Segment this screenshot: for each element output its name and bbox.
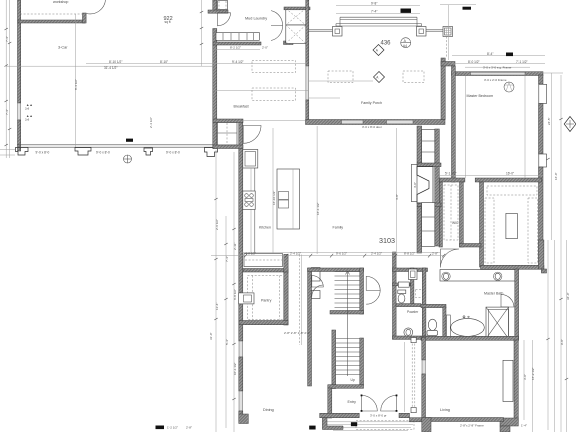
svg-text:7'-4": 7'-4" bbox=[5, 109, 9, 115]
vanity sink west bbox=[442, 272, 450, 280]
svg-text:3'-0": 3'-0" bbox=[523, 374, 527, 380]
dim porch-master v bbox=[447, 5, 449, 60]
master north wall bbox=[452, 72, 544, 76]
entry porch left L wall bbox=[322, 418, 343, 430]
svg-text:Master Bedroom: Master Bedroom bbox=[467, 94, 494, 98]
svg-text:WIC: WIC bbox=[452, 221, 459, 225]
kitchen island bbox=[277, 169, 300, 229]
porch post west bbox=[333, 27, 343, 37]
porch beam upper pair bbox=[340, 17, 417, 19]
svg-text:5'-1 1/2": 5'-1 1/2" bbox=[445, 172, 457, 176]
garage to mud door arc bbox=[218, 13, 231, 26]
svg-text:8'-10": 8'-10" bbox=[160, 60, 168, 64]
family east wall upper bbox=[417, 126, 422, 163]
garage door pier 3 bbox=[144, 148, 153, 155]
svg-text:24'-5": 24'-5" bbox=[547, 117, 551, 125]
wc north wall bbox=[421, 304, 446, 307]
house west wall upper bbox=[239, 122, 243, 341]
svg-text:2'-8": 2'-8" bbox=[186, 426, 192, 430]
svg-text:1'-2 1/2": 1'-2 1/2" bbox=[167, 426, 178, 430]
top-right corner black mark bbox=[463, 7, 472, 10]
svg-text:11'-4": 11'-4" bbox=[215, 303, 219, 310]
powder divider wall bbox=[411, 268, 414, 305]
stair west wall lower bbox=[332, 330, 336, 389]
living west cased opening bbox=[422, 360, 425, 374]
his wic door arc bbox=[441, 249, 460, 268]
porch west window bbox=[306, 66, 309, 100]
stair hall boxes bbox=[312, 268, 321, 282]
dim master top h2 bbox=[452, 63, 545, 65]
pantry east wall upper bbox=[284, 254, 288, 272]
fireplace bbox=[417, 163, 441, 167]
svg-text:9'-6 1/2": 9'-6 1/2" bbox=[336, 251, 347, 255]
dim left bottom h bbox=[0, 150, 15, 156]
stair treads upper flight bbox=[335, 272, 360, 308]
dim far-right v1 bbox=[551, 73, 553, 240]
dim far-right v3 bbox=[560, 75, 562, 432]
master closet hanging east bbox=[528, 198, 538, 263]
master east wall mid bbox=[539, 104, 544, 155]
master east wall upper bbox=[539, 75, 544, 84]
stair east wall upper bbox=[360, 268, 364, 314]
house west wall seg2 bbox=[239, 357, 243, 391]
master closet hanging west bbox=[485, 198, 494, 263]
svg-text:9'-0 x 8'-0: 9'-0 x 8'-0 bbox=[96, 151, 110, 155]
svg-text:7'-4": 7'-4" bbox=[5, 36, 9, 42]
svg-text:Up: Up bbox=[351, 378, 355, 382]
entry porch right jog wall bbox=[410, 418, 422, 422]
gallery colonnade bbox=[411, 340, 413, 410]
his wic west wall bbox=[439, 182, 442, 247]
svg-text:31'-0": 31'-0" bbox=[209, 332, 213, 340]
svg-text:Powder: Powder bbox=[407, 310, 419, 314]
garage east wall bbox=[213, 0, 217, 13]
laundry north wall bbox=[284, 7, 310, 10]
garage slab center symbol bbox=[124, 155, 132, 163]
bottom black rect west bbox=[309, 426, 315, 430]
his wic hanging dashes bbox=[444, 185, 458, 240]
svg-text:3'-0 x 8'-0 pr: 3'-0 x 8'-0 pr bbox=[370, 414, 387, 418]
workshop dashed header bbox=[20, 13, 82, 15]
powder mid wall bbox=[393, 283, 411, 286]
svg-text:3'-0 x 3'-0 e.g. Frame: 3'-0 x 3'-0 e.g. Frame bbox=[483, 65, 512, 69]
pantry north wall bbox=[243, 269, 288, 273]
svg-text:16'-10 1/2": 16'-10 1/2" bbox=[272, 191, 276, 205]
dim garage horiz bbox=[6, 65, 213, 67]
svg-text:workshop: workshop bbox=[53, 0, 68, 4]
garage front wall line bbox=[17, 144, 216, 146]
living niche bbox=[503, 360, 513, 401]
tub platform edge bbox=[447, 315, 451, 338]
powder sink bbox=[404, 328, 413, 337]
master east window bay 1 bbox=[539, 84, 547, 103]
his wic south wall bbox=[460, 244, 482, 248]
fireplace cabinets lower bbox=[422, 203, 435, 247]
workshop south wall bbox=[18, 20, 85, 23]
dim porch mid h bbox=[336, 13, 420, 15]
svg-text:7'-4": 7'-4" bbox=[371, 10, 377, 14]
master top black mark bbox=[506, 53, 513, 57]
powder south inner wall bbox=[396, 304, 421, 307]
pantry west niche bbox=[239, 293, 254, 304]
svg-text:31'-4 1/2": 31'-4 1/2" bbox=[104, 66, 117, 70]
porch beam end verticals bbox=[336, 17, 422, 26]
master east window bay 2 bbox=[539, 154, 547, 167]
living east wall bbox=[514, 340, 518, 422]
dim right top h bbox=[543, 72, 563, 74]
svg-text:3-Car: 3-Car bbox=[58, 46, 68, 50]
pantry east wall bbox=[284, 272, 288, 325]
entry front wall west seg bbox=[320, 413, 360, 417]
svg-text:Living: Living bbox=[440, 408, 450, 412]
svg-text:A4: A4 bbox=[403, 44, 407, 48]
dim master room v1 bbox=[465, 76, 467, 178]
dim garage center v bbox=[74, 14, 76, 147]
burners bbox=[245, 194, 249, 198]
living SE lower bbox=[500, 426, 510, 432]
master south wall east seg bbox=[475, 178, 541, 182]
dim row mid ticks bbox=[244, 254, 445, 258]
bath vanity counter bbox=[440, 270, 515, 282]
dryer box bbox=[286, 25, 306, 44]
svg-text:4'-8 1/2": 4'-8 1/2" bbox=[245, 251, 256, 255]
svg-text:Kitchen: Kitchen bbox=[259, 226, 271, 230]
porch east dashed edge bbox=[446, 37, 448, 59]
stair treads lower flight bbox=[336, 339, 360, 375]
dim master south h bbox=[439, 174, 543, 176]
bath2 sink counter bbox=[398, 282, 409, 287]
kitchen south counter bbox=[244, 254, 283, 267]
svg-text:34'-0": 34'-0" bbox=[566, 292, 570, 300]
dim left ticks bbox=[5, 28, 12, 146]
svg-text:2'-11": 2'-11" bbox=[233, 243, 237, 250]
vanity sink east bbox=[494, 272, 502, 280]
dim far-left v2 bbox=[9, 0, 11, 158]
entry sill mark bbox=[351, 422, 357, 426]
stair east wall lower bbox=[360, 338, 364, 386]
porch callout circle bbox=[401, 38, 411, 48]
dim far-right v4 bbox=[566, 240, 568, 432]
svg-text:2'-0": 2'-0" bbox=[262, 45, 268, 49]
entry porch slab bbox=[324, 422, 415, 431]
svg-text:Breakfast: Breakfast bbox=[234, 105, 249, 109]
laundry bifold arc bottom bbox=[271, 26, 283, 41]
tub bbox=[451, 319, 485, 337]
svg-text:436: 436 bbox=[381, 40, 392, 46]
mud closet box bbox=[218, 1, 228, 10]
porch tie beam west bbox=[309, 30, 333, 32]
svg-text:3'-0 x 2'-0 Frame: 3'-0 x 2'-0 Frame bbox=[484, 78, 507, 82]
kitchen counter line bbox=[254, 168, 256, 253]
dim driveway horiz bbox=[86, 63, 306, 65]
stair south wall bbox=[328, 385, 364, 389]
svg-text:8'-10 1/2": 8'-10 1/2" bbox=[109, 60, 122, 64]
svg-text:8'-8 1/2": 8'-8 1/2" bbox=[404, 251, 415, 255]
porch interior dim h bbox=[309, 80, 373, 82]
stair closet west wall bbox=[308, 268, 312, 386]
linen box bbox=[409, 269, 418, 280]
dim far-left v1 bbox=[5, 0, 7, 158]
svg-text:2x6: 2x6 bbox=[25, 107, 30, 111]
workshop door arc bbox=[87, 0, 106, 14]
dim mud col v bbox=[201, 0, 203, 66]
powder south wall bbox=[393, 336, 428, 339]
entry front wall east seg bbox=[399, 413, 410, 417]
svg-text:2'-4 1/2": 2'-4 1/2" bbox=[290, 251, 301, 255]
breakfast closet south wall bbox=[213, 145, 243, 149]
master closet island bbox=[506, 213, 517, 238]
dim mud bench bbox=[215, 48, 260, 50]
svg-text:8'-4 1/2": 8'-4 1/2" bbox=[74, 79, 78, 90]
svg-text:9'-8": 9'-8" bbox=[560, 339, 564, 345]
dim living short v2 bbox=[532, 340, 534, 432]
svg-text:2'-8"x 2'-8" Frame: 2'-8"x 2'-8" Frame bbox=[460, 423, 484, 427]
svg-text:2'-6 1/2": 2'-6 1/2" bbox=[215, 219, 219, 230]
svg-text:Family Porch: Family Porch bbox=[361, 101, 382, 105]
dim master top h1 bbox=[452, 55, 545, 57]
his wic east wall bbox=[460, 182, 464, 247]
fridge box bbox=[243, 150, 258, 169]
svg-text:Mud Laundry: Mud Laundry bbox=[245, 17, 267, 21]
powder block west wall bbox=[393, 252, 397, 339]
porch west wall lower bbox=[306, 100, 309, 122]
porch top black mark bbox=[401, 9, 412, 13]
powder block north wall bbox=[393, 268, 428, 272]
mud lockers bench bbox=[216, 33, 259, 41]
svg-text:▲▲: ▲▲ bbox=[26, 103, 33, 107]
svg-text:8'-0 1/2": 8'-0 1/2" bbox=[468, 60, 480, 64]
svg-text:16'-0": 16'-0" bbox=[506, 172, 514, 176]
svg-text:3'-0 x 8'-0 door: 3'-0 x 8'-0 door bbox=[362, 125, 382, 129]
garage west wall window bbox=[18, 103, 21, 120]
svg-text:2'-4 1/2": 2'-4 1/2" bbox=[371, 251, 382, 255]
range box bbox=[243, 191, 255, 210]
entry west wall bbox=[328, 388, 332, 418]
svg-text:9'-0 x 8'-0: 9'-0 x 8'-0 bbox=[166, 151, 180, 155]
svg-text:2'-8": 2'-8" bbox=[432, 251, 438, 255]
hall east wall (closet divider) bbox=[480, 182, 484, 267]
fireplace back wall bbox=[435, 129, 440, 246]
locker dividers bbox=[223, 33, 254, 40]
diamond symbol right edge bbox=[564, 117, 576, 132]
master closet east wall bbox=[539, 240, 544, 269]
entry double door arcs bbox=[362, 395, 378, 411]
breakfast ceiling dashed box upper bbox=[252, 61, 296, 73]
pantry shelves dashed bbox=[248, 276, 285, 320]
living south wall bbox=[424, 418, 504, 422]
shower bbox=[486, 307, 509, 339]
house west wall lower bbox=[239, 411, 243, 421]
dim top-right corner h bbox=[440, 4, 476, 6]
kitchen door arc bbox=[243, 126, 261, 144]
svg-text:Pantry: Pantry bbox=[261, 299, 272, 303]
dining SW corner bbox=[239, 414, 249, 424]
svg-text:Dining: Dining bbox=[263, 408, 274, 412]
svg-text:9'-0 x 8'-0: 9'-0 x 8'-0 bbox=[36, 151, 50, 155]
porch grill bbox=[443, 27, 453, 37]
fireplace cabinets upper bbox=[422, 130, 435, 164]
family north wall window W bbox=[342, 120, 364, 124]
svg-text:4'-0": 4'-0" bbox=[413, 182, 417, 188]
family north wall (porch south) bbox=[306, 120, 446, 125]
breakfast ceiling dashed box lower bbox=[252, 88, 296, 101]
washer box bbox=[286, 9, 306, 26]
svg-text:7'-1 1/2": 7'-1 1/2" bbox=[516, 60, 528, 64]
garage west wall lower bbox=[18, 120, 21, 151]
living west wall lower bbox=[422, 374, 426, 422]
svg-text:2'-8" 2'-8" 1'-8" 2'-0": 2'-8" 2'-8" 1'-8" 2'-0" bbox=[284, 331, 310, 335]
dim row mid-house bbox=[211, 255, 444, 257]
porch ceiling dashed box east bbox=[403, 71, 424, 83]
breakfast hall north wall bbox=[213, 119, 243, 123]
mud south wall hatched bbox=[213, 42, 261, 45]
porch west wall upper bbox=[306, 0, 309, 66]
dim family east v bbox=[395, 128, 397, 254]
family south double doors bbox=[366, 276, 380, 290]
garage east wall mid bbox=[213, 29, 217, 149]
workshop wall hook bbox=[83, 13, 87, 23]
house west wall window dining1 bbox=[239, 341, 243, 357]
garage door pier 2 bbox=[75, 148, 91, 156]
bottom black mark far west bbox=[156, 426, 165, 430]
porch diamond symbol lower bbox=[374, 72, 385, 83]
entry stoop dashed outline bbox=[356, 421, 414, 430]
master closet south wall bbox=[481, 265, 544, 269]
bath south wall bbox=[421, 336, 519, 340]
stair closet door arcs bbox=[312, 276, 324, 288]
dim porch top h bbox=[336, 5, 420, 7]
svg-text:16'-1 1/2": 16'-1 1/2" bbox=[316, 202, 320, 215]
svg-text:1'-4": 1'-4" bbox=[521, 423, 527, 427]
svg-text:9'-4 1/2": 9'-4 1/2" bbox=[232, 60, 244, 64]
svg-text:3103: 3103 bbox=[379, 236, 395, 245]
family north wall window E bbox=[387, 120, 414, 124]
wc east wall bbox=[443, 307, 446, 338]
powder toilet bbox=[398, 290, 406, 294]
svg-text:16'-0": 16'-0" bbox=[554, 172, 558, 180]
garage floor drain mark bbox=[126, 139, 133, 142]
porch ceiling dashed box west bbox=[328, 71, 353, 83]
living SE corner bbox=[500, 418, 518, 426]
island sink bbox=[279, 192, 289, 200]
svg-text:sq ft: sq ft bbox=[165, 20, 171, 24]
dim col v1 bbox=[215, 150, 217, 432]
master ceiling fan bbox=[504, 82, 514, 92]
dim col ticks bbox=[214, 198, 235, 400]
dim master room v2 bbox=[524, 76, 526, 178]
svg-text:8'-4": 8'-4" bbox=[487, 52, 493, 56]
garage SW corner pier bbox=[16, 148, 29, 156]
wc toilet bbox=[428, 319, 436, 330]
dim far-right ticks bbox=[546, 118, 568, 380]
dim breakfast h bbox=[215, 90, 308, 92]
svg-text:Master Bath: Master Bath bbox=[484, 291, 503, 295]
svg-text:Entry: Entry bbox=[348, 400, 357, 404]
porch tie beam east bbox=[426, 30, 443, 32]
svg-text:6'-8 1/2": 6'-8 1/2" bbox=[233, 289, 237, 300]
svg-text:2'-4 1/2": 2'-4 1/2" bbox=[149, 117, 153, 128]
garage west wall bbox=[18, 0, 21, 103]
stair direction arrow bbox=[347, 272, 349, 376]
svg-text:2x6: 2x6 bbox=[25, 118, 30, 122]
master east wall lower bbox=[539, 167, 544, 269]
dim col v3 bbox=[233, 152, 235, 432]
garage SE pier bbox=[205, 148, 218, 157]
svg-text:7'-4": 7'-4" bbox=[225, 256, 229, 262]
porch post east bbox=[417, 27, 427, 37]
dim kitchen v bbox=[272, 128, 274, 253]
laundry bifold arc top bbox=[271, 11, 283, 26]
house west wall window dining2 bbox=[239, 391, 243, 411]
wc door arc bbox=[501, 295, 514, 308]
porch east wall bbox=[441, 58, 445, 120]
svg-text:5'-4": 5'-4" bbox=[225, 339, 229, 345]
breakfast closet box bbox=[218, 123, 238, 146]
svg-text:9'-8": 9'-8" bbox=[371, 2, 377, 6]
porch diamond symbol upper bbox=[373, 45, 384, 56]
svg-text:16'-2 1/2": 16'-2 1/2" bbox=[531, 367, 535, 380]
family east wall lower bbox=[417, 207, 422, 253]
stair north wall bbox=[308, 268, 364, 272]
svg-text:▲▲: ▲▲ bbox=[26, 114, 33, 118]
svg-text:8'-2 1/2": 8'-2 1/2" bbox=[230, 45, 241, 49]
dim family west v bbox=[316, 126, 318, 254]
living west wall upper bbox=[422, 338, 426, 361]
dim living short v1 bbox=[523, 340, 525, 420]
pantry south wall bbox=[239, 321, 288, 325]
hall dashed line bbox=[299, 255, 301, 346]
dim master frame label line bbox=[465, 66, 530, 68]
garage front wall line2 bbox=[17, 146, 216, 148]
svg-text:4'-8": 4'-8" bbox=[395, 194, 399, 200]
dim far-right v2 bbox=[554, 240, 556, 432]
svg-text:10'-1 1/2": 10'-1 1/2" bbox=[233, 362, 237, 375]
mud closet north wall bbox=[208, 10, 228, 13]
dim col v2 bbox=[225, 216, 227, 428]
porch beam lower pair bbox=[336, 24, 422, 26]
stair mid wall bbox=[330, 311, 364, 315]
master north window bbox=[471, 72, 526, 75]
mud south wall east seg bbox=[284, 41, 294, 45]
living SW corner block bbox=[422, 418, 431, 432]
master closet hanging north bbox=[487, 186, 537, 195]
closet SE jog bbox=[541, 269, 546, 273]
master south wall west seg bbox=[439, 178, 465, 182]
master bath east wall bbox=[515, 269, 519, 340]
master west wall bbox=[452, 66, 456, 182]
porch-master corner wall bbox=[441, 62, 455, 67]
svg-text:Family: Family bbox=[333, 225, 344, 229]
powder east wall bbox=[422, 268, 426, 339]
